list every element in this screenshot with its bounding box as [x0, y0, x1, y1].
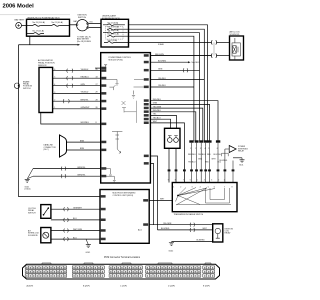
sw wire row 4 with ground — [51, 237, 106, 241]
wire labels under connector — [188, 154, 221, 156]
ignition switch — [74, 15, 93, 31]
svg-text:PCM Connector Terminal Locatio: PCM Connector Terminal Locations — [104, 256, 141, 259]
svg-text:6: 6 — [217, 148, 218, 150]
svg-text:1: 1 — [173, 187, 174, 189]
pcm left row 1 — [53, 69, 107, 73]
wire row2 to right drop — [129, 29, 205, 140]
ground wire row 2 — [33, 174, 106, 178]
svg-text:6: 6 — [190, 180, 191, 182]
svg-text:29: 29 — [96, 92, 98, 94]
inline connector pair upper — [211, 40, 216, 44]
sw wire row 1 — [51, 207, 106, 211]
svg-text:SWITCH: SWITCH — [28, 212, 36, 214]
pcm right rows to solenoid box — [144, 114, 177, 129]
svg-text:YEL/BLU: YEL/BLU — [81, 92, 89, 94]
svg-text:TRANSMISSION RANGE SWITCH: TRANSMISSION RANGE SWITCH — [174, 213, 204, 216]
data link connector — [44, 135, 67, 157]
transmission range switch box — [172, 183, 237, 217]
svg-text:BRN/YEL: BRN/YEL — [78, 167, 86, 169]
PCM internal stubs bottom — [101, 169, 116, 182]
fuse No.21 (40A) — [52, 21, 70, 26]
ground G101 bottom — [86, 239, 91, 254]
svg-text:2006 Model: 2006 Model — [3, 3, 35, 9]
fuse No.17 (15A) — [27, 29, 45, 34]
svg-text:No.21 (40 A): No.21 (40 A) — [52, 21, 64, 24]
pin group 3 — [109, 266, 142, 277]
sensor connector blob row — [189, 140, 220, 142]
svg-text:2: 2 — [218, 180, 219, 182]
PCM internal shield ground — [132, 91, 135, 99]
svg-text:GRN: GRN — [81, 84, 86, 86]
pcm left row 4 — [53, 92, 107, 95]
under-dash fuse/relay box — [101, 14, 129, 47]
left bus corner to MICU — [19, 124, 101, 197]
svg-text:8: 8 — [232, 187, 233, 189]
fuse No.19 (100A) — [27, 21, 53, 26]
pcm left row 6 — [53, 107, 107, 110]
sensor drops to range switch — [192, 147, 219, 183]
svg-text:BRN: BRN — [80, 148, 85, 150]
svg-text:7: 7 — [183, 180, 184, 182]
PCM box — [101, 53, 151, 183]
switch box 2 — [28, 228, 51, 243]
amp input wire — [225, 149, 229, 183]
svg-text:26: 26 — [96, 107, 98, 109]
pcm left row 5 — [53, 99, 107, 103]
svg-text:SENSOR: SENSOR — [38, 65, 47, 67]
svg-text:(No.18) FUSES: (No.18) FUSES — [77, 41, 92, 43]
PCM internal driver — [122, 101, 137, 123]
link between connectors — [213, 42, 215, 55]
fuse No.15 (7.5A) — [107, 26, 129, 30]
svg-text:D (44P): D (44P) — [168, 285, 175, 287]
svg-text:44: 44 — [96, 76, 98, 78]
svg-text:No.19 (100 A): No.19 (100 A) — [33, 21, 46, 24]
ground G101 left — [25, 169, 34, 191]
solenoid valve box — [165, 128, 181, 148]
svg-text:GRN: GRN — [153, 103, 158, 105]
pcm left row 7 long — [41, 113, 107, 126]
svg-text:BLU/YEL: BLU/YEL — [214, 154, 221, 156]
svg-text:A (31P): A (31P) — [27, 284, 34, 287]
svg-text:3: 3 — [192, 187, 193, 189]
wire battery to under-hood box — [22, 24, 27, 26]
pcm left row y68 stub — [95, 67, 106, 70]
svg-text:GRN: GRN — [158, 69, 163, 71]
pcm right row B to ELD — [144, 60, 201, 64]
svg-text:BLU: BLU — [73, 237, 77, 239]
svg-text:RELAY: RELAY — [225, 232, 232, 235]
svg-text:C (31P): C (31P) — [120, 285, 127, 287]
accelerator pedal position sensor — [38, 59, 55, 112]
sw wire row 3 — [51, 229, 106, 233]
fuse No.13 (10A) — [103, 21, 125, 25]
housing latch tabs — [42, 263, 211, 264]
svg-text:BATTERY: BATTERY — [15, 19, 25, 22]
micu right wire 2 — [143, 223, 213, 227]
wire row3 to right drop — [129, 33, 200, 141]
wire row5 FI ASD — [129, 42, 212, 46]
svg-text:FI ASD: FI ASD — [158, 43, 165, 46]
svg-text:45: 45 — [96, 69, 98, 71]
svg-text:3: 3 — [200, 148, 201, 150]
svg-text:YEL/GRN: YEL/GRN — [153, 106, 162, 108]
note TO MET fuses — [77, 36, 92, 42]
svg-text:YEL/BLU: YEL/BLU — [158, 78, 166, 80]
dlc wire 1 — [67, 140, 107, 143]
svg-text:1: 1 — [190, 148, 191, 150]
svg-text:A2-6: A2-6 — [138, 228, 142, 231]
knock amplifier triangle — [229, 146, 248, 153]
svg-text:8: 8 — [96, 122, 97, 124]
fuse No.8 (15A) — [104, 39, 129, 43]
svg-text:IG1: IG1 — [90, 21, 93, 23]
pin group 1 — [25, 266, 66, 277]
accel sensor terminal numbers — [54, 69, 55, 109]
pcm right row C — [144, 68, 200, 72]
svg-text:GRN/WHT: GRN/WHT — [73, 207, 83, 209]
range switch internal pins — [173, 187, 232, 189]
svg-text:YEL/BLU: YEL/BLU — [158, 85, 166, 87]
wire IG2 to under-dash box — [89, 27, 101, 29]
wire PCM to lower connector — [150, 55, 211, 57]
svg-text:RED/BLK: RED/BLK — [153, 110, 162, 112]
svg-text:BLK/RED: BLK/RED — [220, 160, 228, 162]
interlock control unit box — [230, 31, 244, 60]
svg-text:RED/BLU: RED/BLU — [81, 76, 90, 78]
svg-text:GRN/WHT: GRN/WHT — [81, 107, 91, 109]
svg-text:YEL/BLU: YEL/BLU — [188, 161, 196, 163]
svg-text:BLK/RED: BLK/RED — [158, 60, 167, 62]
inline connector pair lower — [211, 53, 216, 57]
under-hood fuse/relay box — [27, 16, 70, 36]
svg-text:1: 1 — [224, 180, 225, 182]
svg-text:YEL: YEL — [153, 114, 157, 116]
pcm left row 3 — [53, 84, 107, 88]
svg-text:SWITCH: SWITCH — [78, 17, 87, 19]
svg-text:CONTROL UNIT (MICU): CONTROL UNIT (MICU) — [113, 195, 134, 197]
svg-text:WHT/GRN: WHT/GRN — [73, 229, 83, 231]
svg-text:9: 9 — [168, 180, 169, 182]
svg-text:BRN/YEL: BRN/YEL — [78, 174, 86, 176]
connector housing — [23, 264, 220, 279]
pin group 2 — [72, 266, 104, 277]
svg-text:27: 27 — [96, 84, 98, 86]
svg-text:G101: G101 — [86, 252, 91, 254]
svg-text:B (25P): B (25P) — [83, 285, 90, 287]
svg-text:No.15 (7.5 A): No.15 (7.5 A) — [108, 26, 120, 29]
drop labels — [188, 158, 222, 163]
pcm right row D — [134, 78, 204, 81]
PCM internal resistor row2 — [101, 80, 119, 86]
battery — [15, 19, 25, 29]
PCM internal driver chain — [112, 132, 122, 154]
wire to range switch col — [220, 160, 235, 183]
svg-text:5: 5 — [197, 180, 198, 182]
pcm left row 2 — [53, 76, 107, 80]
switch box 1 — [28, 205, 51, 219]
fuse No.18 (7.5A) — [103, 29, 127, 33]
wire row4 to right drop — [129, 36, 194, 140]
svg-text:MODULE (PCM): MODULE (PCM) — [109, 59, 123, 61]
wire v2 to fuel pump box — [158, 228, 213, 232]
ground G102 bottom right — [169, 240, 213, 253]
pin group 5 — [203, 266, 215, 277]
svg-text:BLU/RED: BLU/RED — [161, 228, 170, 230]
svg-text:G101: G101 — [239, 165, 243, 167]
connector stubs below — [192, 143, 219, 147]
ground wire row 1 — [33, 167, 106, 171]
wire fuse17 down and to MET arrow — [19, 36, 78, 45]
pin group 4 — [146, 266, 201, 277]
wire IG1 to under-dash box — [89, 23, 101, 25]
svg-text:RED/GRN: RED/GRN — [155, 54, 164, 56]
svg-text:No.4 ELD: No.4 ELD — [192, 62, 201, 64]
svg-text:YEL/BLU: YEL/BLU — [81, 69, 89, 71]
svg-text:RED/BLU: RED/BLU — [188, 154, 196, 156]
micu right wire — [143, 199, 172, 202]
fuse No.16 (7.5A) — [107, 33, 129, 37]
svg-text:5: 5 — [208, 148, 209, 150]
svg-text:4: 4 — [204, 180, 205, 182]
svg-text:WHT/BLU: WHT/BLU — [81, 122, 90, 124]
svg-text:YEL/BLU: YEL/BLU — [153, 117, 161, 119]
svg-text:E (31P): E (31P) — [203, 285, 210, 287]
brake pedal position switch — [14, 80, 32, 90]
svg-text:(DLC): (DLC) — [44, 149, 49, 151]
micu left pin A17 — [101, 195, 106, 198]
svg-text:No.17 (15 A): No.17 (15 A) — [33, 29, 45, 32]
svg-text:YEL/BLU: YEL/BLU — [198, 154, 206, 156]
battery bus vertical — [18, 45, 20, 124]
svg-text:2: 2 — [195, 148, 196, 150]
PCM internal pull-up row1 — [104, 65, 107, 71]
svg-text:SOLENOID: SOLENOID — [28, 235, 38, 237]
connector labels — [27, 284, 211, 287]
svg-text:RED/BLU: RED/BLU — [153, 99, 162, 101]
dlc wire 2 — [67, 148, 107, 151]
wire box to ignition switch — [70, 24, 77, 26]
svg-text:2: 2 — [180, 187, 181, 189]
header rule — [0, 14, 70, 16]
solenoid outputs down — [168, 148, 170, 182]
pcm right lower drops — [144, 155, 158, 230]
svg-text:BRN/YEL: BRN/YEL — [81, 99, 89, 101]
svg-text:8: 8 — [175, 180, 176, 182]
MICU box — [100, 190, 149, 244]
svg-text:28: 28 — [96, 99, 98, 101]
sw wire row 2 — [51, 218, 106, 222]
svg-text:BRN: BRN — [80, 140, 85, 142]
svg-text:GRN: GRN — [198, 158, 203, 160]
small comp and ground right — [222, 153, 245, 166]
svg-text:BLU: BLU — [73, 218, 77, 220]
PCM internal marks row3 — [110, 85, 116, 90]
svg-text:No.16 (7.5 A): No.16 (7.5 A) — [108, 33, 120, 36]
pcm right row E — [134, 85, 194, 88]
svg-text:SWITCH: SWITCH — [23, 88, 31, 90]
svg-text:G102: G102 — [169, 251, 174, 253]
range switch top pin numbers — [168, 180, 225, 182]
wire row1 to right drop — [129, 25, 208, 141]
svg-text:RELAY: RELAY — [238, 150, 245, 153]
pcm right row A — [144, 54, 212, 57]
fuel pump box — [213, 224, 234, 242]
svg-text:(G102): (G102) — [25, 189, 31, 191]
svg-text:BLK/RED: BLK/RED — [197, 240, 206, 242]
pcm right row to range switch — [144, 121, 186, 182]
range switch wipers — [176, 188, 232, 206]
svg-text:4: 4 — [205, 148, 206, 150]
svg-text:3: 3 — [211, 180, 212, 182]
svg-text:YEL/GRN: YEL/GRN — [163, 223, 172, 225]
svg-text:4: 4 — [200, 187, 201, 189]
svg-text:5: 5 — [208, 187, 209, 189]
pcm right sensor rows group — [144, 99, 218, 141]
